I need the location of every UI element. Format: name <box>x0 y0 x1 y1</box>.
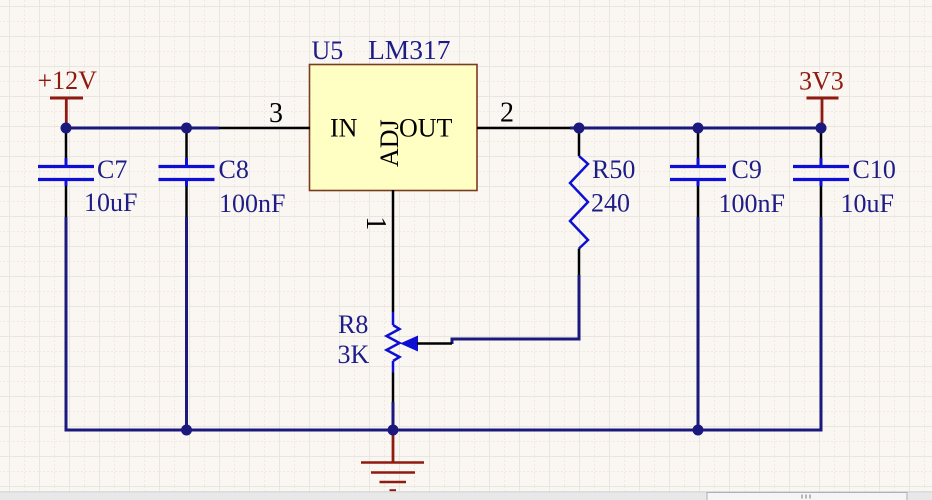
svg-text:U5: U5 <box>312 36 344 65</box>
wire C9 column <box>697 217 700 430</box>
svg-text:2: 2 <box>500 98 514 129</box>
power port +12V <box>38 66 98 126</box>
op-amp U5 LM317 regulator body <box>310 34 478 191</box>
node junction dots <box>61 123 72 134</box>
wire R50 bottom to R8 wiper <box>452 275 579 344</box>
capacitor C8 <box>159 131 286 218</box>
power port 3V3 <box>799 67 844 127</box>
svg-text:10uF: 10uF <box>84 188 137 217</box>
svg-text:100nF: 100nF <box>719 189 785 218</box>
pin 2 <box>477 127 570 130</box>
resistor R50 <box>570 128 635 275</box>
svg-text:3K: 3K <box>338 340 370 369</box>
svg-text:R8: R8 <box>338 310 368 339</box>
svg-text:C7: C7 <box>97 155 127 184</box>
potentiometer R8 <box>338 310 453 402</box>
svg-text:C10: C10 <box>853 155 896 184</box>
svg-text:+12V: +12V <box>38 66 98 95</box>
svg-text:100nF: 100nF <box>219 189 285 218</box>
wire bottom rail with left and right risers <box>66 217 821 430</box>
svg-text:OUT: OUT <box>399 114 453 143</box>
ground <box>361 430 424 491</box>
capacitor C7 <box>38 131 137 217</box>
wire R8 bottom to rail <box>392 402 395 430</box>
capacitor C9 <box>670 131 785 218</box>
svg-text:1: 1 <box>360 216 391 230</box>
scrollbar strip <box>0 492 932 500</box>
wire top-left bus <box>66 127 219 130</box>
svg-text:3: 3 <box>269 98 283 129</box>
wire top-right bus <box>570 127 821 130</box>
svg-text:10uF: 10uF <box>841 189 894 218</box>
svg-text:ADJ: ADJ <box>375 119 404 167</box>
svg-text:3V3: 3V3 <box>799 67 844 96</box>
svg-text:C9: C9 <box>732 155 762 184</box>
svg-text:IN: IN <box>330 114 358 143</box>
pin 3 <box>219 127 310 130</box>
wire C8 column <box>185 217 188 430</box>
svg-text:R50: R50 <box>592 155 635 184</box>
pin 1 <box>392 190 395 312</box>
capacitor C10 <box>793 131 896 218</box>
svg-text:C8: C8 <box>219 155 249 184</box>
svg-text:240: 240 <box>591 189 630 218</box>
svg-text:LM317: LM317 <box>368 34 451 65</box>
